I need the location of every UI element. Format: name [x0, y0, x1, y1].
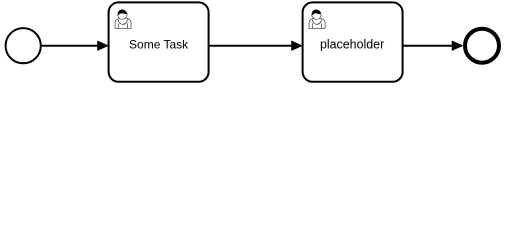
arrowhead into end event — [452, 41, 462, 50]
label placeholder — [320, 38, 384, 52]
wire: sequence flow from start event to task Some Task — [41, 45, 99, 47]
task Some Task (rounded rectangle) — [109, 2, 209, 81]
arrowhead into task placeholder — [292, 41, 302, 50]
svg-text:placeholder: placeholder — [320, 38, 384, 52]
task placeholder (rounded rectangle) — [303, 2, 403, 81]
end event (thick circle) — [465, 29, 499, 63]
svg-text:Some Task: Some Task — [129, 38, 189, 52]
user icon of task placeholder — [309, 9, 325, 28]
user icon of task Some Task — [115, 9, 131, 28]
arrowhead into task Some Task — [98, 41, 108, 50]
start event (circle) — [6, 28, 41, 63]
wire: sequence flow from task placeholder to end event — [404, 45, 453, 47]
wire: sequence flow from task Some Task to task placeholder — [210, 45, 293, 47]
label Some Task — [129, 38, 189, 52]
